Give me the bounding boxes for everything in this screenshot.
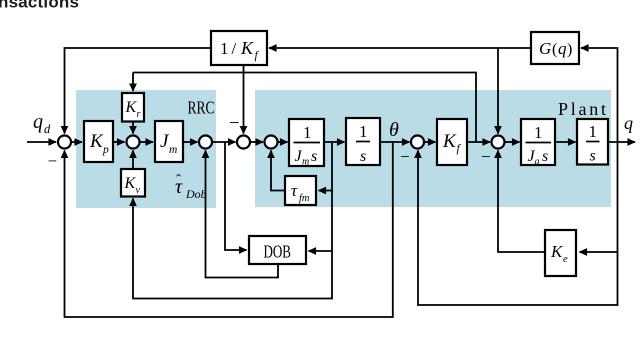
svg-text:s: s — [542, 148, 548, 165]
wire B to Jm — [140, 141, 154, 143]
svg-text:1: 1 — [359, 122, 368, 141]
wire Jm to C — [183, 141, 198, 143]
block Kr — [122, 93, 144, 122]
block Kv — [121, 169, 145, 197]
block tau_fm — [285, 176, 316, 205]
svg-text:1: 1 — [220, 39, 229, 58]
wire velocity branch into DOB right — [309, 250, 333, 252]
svg-text:q: q — [33, 111, 43, 133]
svg-text:p: p — [102, 144, 109, 156]
svg-text:a: a — [535, 157, 540, 168]
wire drop into Kr — [132, 73, 134, 92]
svg-text:K: K — [442, 131, 457, 152]
svg-text:RRC: RRC — [188, 98, 215, 118]
svg-text:1: 1 — [303, 123, 312, 142]
block 1/(Jm s) — [289, 119, 324, 166]
wire JaS to S2 — [555, 141, 576, 143]
summing junction E — [265, 136, 278, 149]
wire G(q) output to 1/Kf — [269, 47, 531, 49]
wire velocity branch into tau_fm — [319, 190, 333, 192]
wire DOB left input from torque wire — [225, 142, 247, 250]
wire C to D — [212, 141, 236, 143]
svg-text:s: s — [590, 148, 596, 165]
svg-text:fm: fm — [299, 193, 310, 204]
wire 1/Kf output down into A — [65, 48, 212, 134]
wire F to Kf — [424, 141, 436, 143]
block 1/s plant integrator — [577, 119, 608, 165]
svg-text:s: s — [311, 148, 317, 165]
RRC shaded region — [76, 90, 216, 208]
svg-text:r: r — [137, 109, 141, 120]
wire D to E — [250, 141, 263, 143]
svg-text:s: s — [360, 148, 366, 165]
wire G(q) branch down into G — [497, 48, 499, 134]
svg-text:ˆ: ˆ — [176, 173, 181, 189]
svg-text:e: e — [563, 254, 568, 265]
svg-text:G: G — [539, 39, 551, 58]
svg-text:(: ( — [552, 41, 557, 58]
svg-text:): ) — [567, 41, 572, 58]
svg-text:q: q — [558, 39, 567, 58]
wire outer position feedback to A — [65, 142, 393, 317]
svg-text:K: K — [550, 242, 564, 261]
wire Kf to G — [467, 141, 490, 143]
Plant shaded region — [255, 90, 611, 207]
wire input qd — [27, 141, 56, 143]
wire Ke output up into G — [498, 151, 545, 253]
wire A to Kp — [71, 141, 82, 143]
summing junction A — [58, 136, 71, 149]
block Kp — [84, 121, 113, 162]
block DOB — [249, 236, 306, 264]
svg-text:K: K — [240, 38, 254, 58]
block 1/s motor integrator — [346, 118, 380, 165]
svg-text:−: − — [47, 152, 58, 171]
wire branch into Ke — [580, 251, 618, 253]
svg-text:m: m — [302, 157, 309, 168]
wire G to JaS — [505, 141, 520, 143]
block 1/Kf — [211, 31, 267, 65]
wire S2 to output q — [608, 141, 635, 143]
svg-text:m: m — [169, 144, 177, 156]
wire Kv output into B — [132, 151, 134, 170]
svg-text:v: v — [136, 185, 141, 196]
wire S1 to F (theta wire) — [380, 141, 410, 143]
wire feedforward line y72 — [133, 73, 476, 143]
block Kf — [437, 119, 467, 165]
wire DOB output up into C — [206, 151, 279, 278]
wire JmS to S1 with velocity tap — [324, 141, 345, 143]
svg-text:−: − — [399, 147, 410, 166]
wire tau_fm output up into E — [271, 151, 285, 191]
svg-text:−: − — [228, 113, 241, 134]
wire Kp to B — [113, 141, 125, 143]
svg-text:1: 1 — [534, 123, 543, 142]
svg-text:/: / — [232, 39, 237, 58]
svg-text:q: q — [624, 113, 633, 133]
svg-text:τ: τ — [291, 181, 298, 200]
svg-text:nsactions: nsactions — [0, 0, 79, 12]
wire velocity feedback down and around to Kv — [133, 142, 332, 299]
block Jm — [155, 121, 183, 162]
svg-text:1: 1 — [589, 122, 598, 141]
wire 1/Kf bottom drop into D — [243, 65, 245, 134]
svg-text:θ: θ — [389, 119, 399, 141]
summing junction G — [492, 136, 505, 149]
summing junction F — [411, 136, 424, 149]
block 1/(Ja s) — [521, 119, 555, 165]
svg-text:K: K — [89, 131, 104, 152]
block G(q) — [531, 32, 579, 64]
summing junction B — [127, 136, 140, 149]
wire q feedback down right loop into F — [418, 142, 618, 305]
summing junction D — [237, 136, 250, 149]
svg-text:Dob: Dob — [185, 187, 207, 201]
wire q feedback up to G(q) input — [581, 48, 618, 142]
summing junction C — [199, 136, 212, 149]
svg-text:d: d — [44, 122, 51, 136]
block Ke — [545, 230, 576, 276]
wire E to JmS block — [278, 141, 288, 143]
svg-text:−: − — [480, 147, 491, 166]
wire Kr output into B — [132, 122, 134, 134]
svg-text:DOB: DOB — [264, 242, 292, 262]
